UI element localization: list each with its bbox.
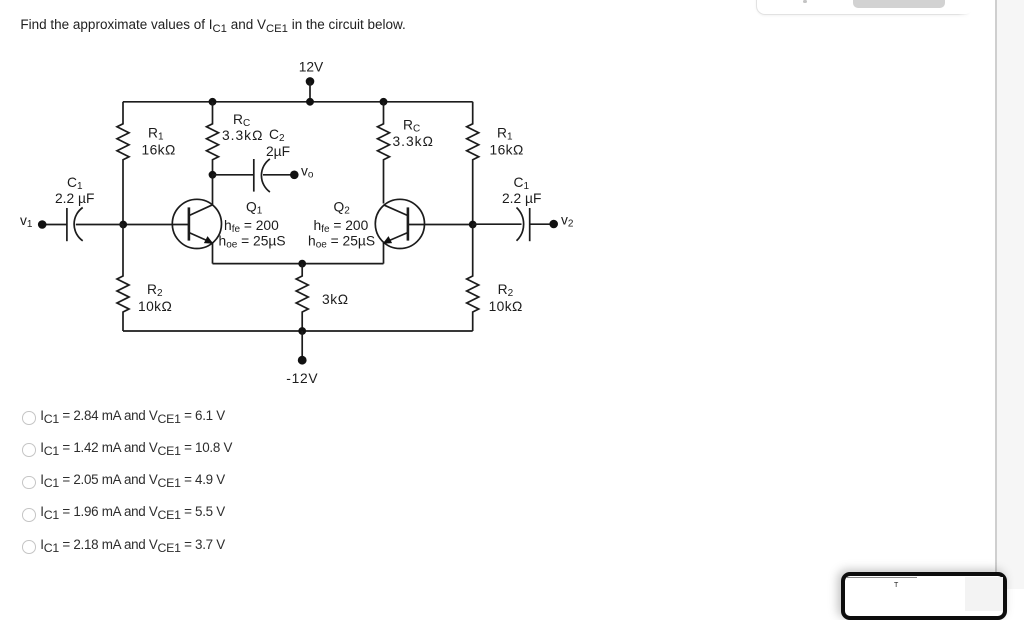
svg-text:hfe = 200: hfe = 200 (224, 218, 279, 235)
resistor RC left 3.3k (207, 102, 219, 175)
power terminal -12V (298, 331, 307, 365)
svg-text:R2: R2 (147, 282, 163, 299)
transistor Q2 (375, 199, 424, 263)
svg-text:RC: RC (233, 112, 250, 129)
svg-text:Q2: Q2 (334, 200, 351, 217)
terminal v2 (549, 220, 558, 229)
junction node 12V tap (306, 98, 314, 106)
svg-text:2.2 µF: 2.2 µF (502, 191, 541, 206)
junction node RC2 top (380, 98, 388, 106)
resistor R1 right 16k (467, 102, 479, 225)
svg-text:R2: R2 (498, 282, 514, 299)
svg-text:hoe = 25µS: hoe = 25µS (219, 234, 286, 251)
svg-text:10kΩ: 10kΩ (489, 299, 523, 314)
answer option E radio (22, 540, 36, 554)
wire Q1 base (123, 224, 189, 226)
svg-text:Q1: Q1 (246, 200, 263, 217)
svg-text:10kΩ: 10kΩ (138, 299, 172, 314)
bottom right mini window (841, 572, 1007, 620)
resistor RC right 3.3k (378, 102, 390, 204)
junction node base right (469, 221, 477, 229)
svg-text:16kΩ: 16kΩ (490, 143, 524, 158)
resistor R1 left 16k (117, 102, 129, 225)
svg-text:C2: C2 (269, 127, 285, 144)
toolbar gray button (853, 0, 945, 8)
question title (20, 17, 405, 32)
answer option A text (40, 408, 225, 423)
wire emitter rail (213, 263, 384, 265)
power terminal +12V (306, 77, 315, 101)
answer option D radio (22, 508, 36, 522)
svg-text:12V: 12V (299, 60, 324, 75)
resistor R2 left 10k (117, 225, 129, 332)
transistor Q1 (172, 175, 221, 264)
answer option C text (40, 472, 225, 487)
junction node emitter rail (298, 260, 306, 268)
junction node base left (119, 221, 127, 229)
toolbar tiny mark (803, 0, 807, 3)
right scrollbar zone (995, 0, 1024, 589)
svg-text:v2: v2 (561, 213, 574, 230)
svg-text:2.2 µF: 2.2 µF (55, 191, 94, 206)
answer option C radio (22, 476, 36, 490)
svg-text:C1: C1 (514, 175, 530, 192)
svg-text:R1: R1 (148, 126, 164, 143)
top right toolbar card (756, 0, 974, 15)
resistor RE 3k (296, 264, 308, 331)
answer option E text (40, 537, 225, 552)
capacitor C1 input (42, 208, 123, 242)
svg-text:RC: RC (403, 118, 420, 135)
terminal v1 (38, 220, 47, 229)
circuit schematic (0, 0, 600, 400)
svg-text:3.3kΩ: 3.3kΩ (222, 128, 263, 143)
answer option A radio (22, 411, 36, 425)
svg-text:vo: vo (301, 164, 314, 181)
wire bottom rail (123, 330, 473, 332)
svg-text:hfe = 200: hfe = 200 (314, 218, 369, 235)
junction node RC1 top (209, 98, 217, 106)
svg-text:hoe = 25µS: hoe = 25µS (308, 234, 375, 251)
svg-text:-12V: -12V (286, 371, 318, 386)
junction node bottom rail (298, 327, 306, 335)
svg-text:16kΩ: 16kΩ (142, 143, 176, 158)
capacitor C1 output (473, 208, 554, 242)
svg-text:3.3kΩ: 3.3kΩ (393, 134, 434, 149)
resistor R2 right 10k (467, 225, 479, 332)
answer option B text (40, 440, 232, 455)
answer option D text (40, 504, 225, 519)
answer option B radio (22, 443, 36, 457)
junction node Q1 collector (209, 171, 217, 179)
svg-text:v1: v1 (20, 213, 33, 230)
wire Q2 base (408, 224, 473, 226)
svg-text:3kΩ: 3kΩ (322, 292, 349, 307)
wire top rail (123, 101, 473, 103)
capacitor C2 interstage (213, 159, 295, 192)
svg-text:R1: R1 (497, 126, 513, 143)
svg-text:2µF: 2µF (266, 144, 290, 159)
toolbar border fade (958, 0, 976, 17)
terminal vo (290, 171, 299, 180)
svg-text:C1: C1 (67, 175, 83, 192)
